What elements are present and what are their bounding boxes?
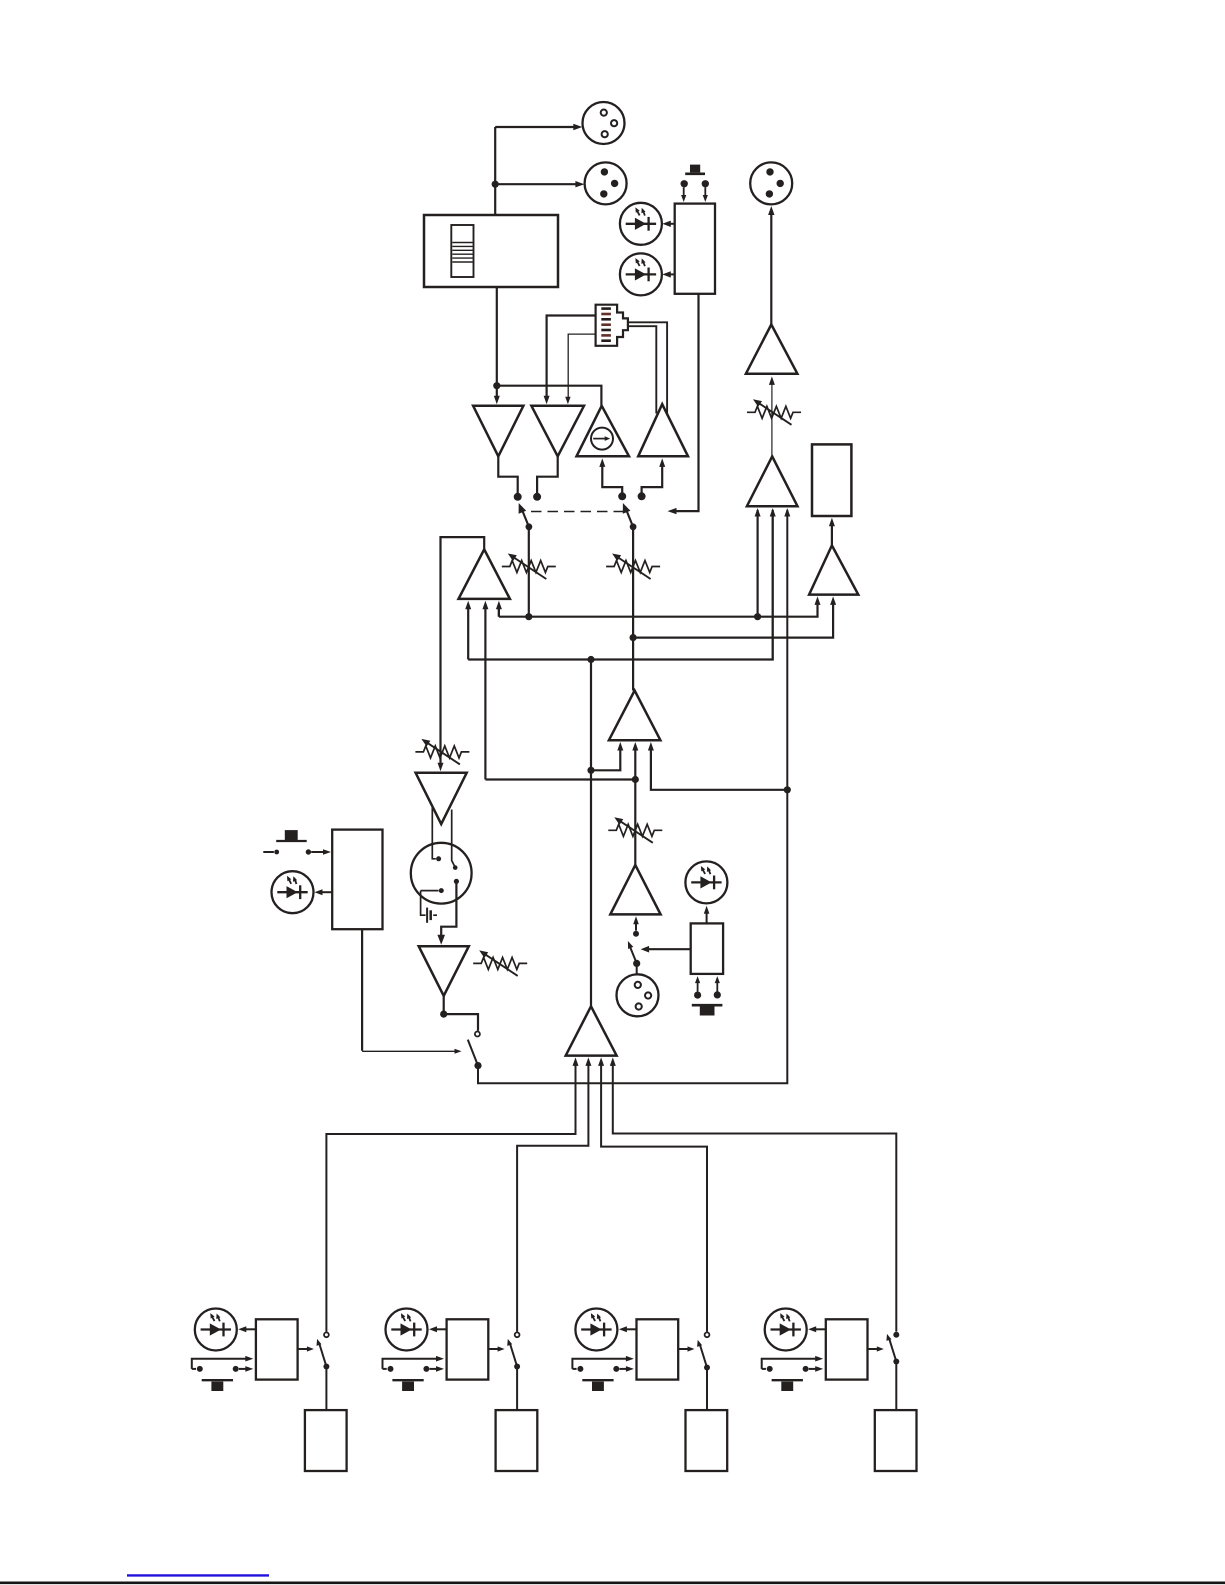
LED D1 power/limit indicator xyxy=(620,203,662,245)
pushbutton S4 rec xyxy=(285,830,298,840)
wire: control box to LED D1 xyxy=(670,223,675,225)
wire: mono bus to meter amp A3 apex xyxy=(497,386,602,406)
wire: control arrow channel 3 xyxy=(678,1348,688,1350)
node: bus1 to A6 xyxy=(754,613,761,620)
switch S5 pole xyxy=(633,960,640,967)
switch S22 pole xyxy=(514,1364,520,1370)
node A11 out xyxy=(440,1011,447,1018)
switch S32 pole xyxy=(704,1365,710,1371)
mix amp input2 arrow xyxy=(632,742,638,751)
switch S2a lever xyxy=(522,509,529,527)
jack ring contact xyxy=(452,810,455,867)
switch S32 lever xyxy=(700,1344,707,1368)
switch S12 lever xyxy=(319,1343,326,1367)
summing input arrows xyxy=(573,1057,579,1066)
limiter control box U1 xyxy=(675,204,715,294)
wire: limiter box to gang switch xyxy=(676,294,699,511)
node: echo return branch xyxy=(784,786,791,793)
XLR J4 talkback mic (female) xyxy=(617,974,659,1016)
channel 1 gain box xyxy=(256,1319,298,1379)
wire: A11 output to switch S3 xyxy=(443,996,445,1014)
switch S42 channel 4 contact xyxy=(893,1332,899,1338)
bus line 2 master to A7 xyxy=(633,601,833,638)
contacts S2b xyxy=(618,492,626,500)
RJ45 remote connector xyxy=(596,305,628,346)
wire: phantom box to S5 control xyxy=(648,948,691,950)
op-amp A11 echo send (down) xyxy=(419,946,469,996)
wire: box to LED D3 xyxy=(322,891,333,893)
wire: box to LED channel 1 xyxy=(245,1328,256,1330)
footer link line xyxy=(127,1574,269,1576)
op-amp A13 channel summing (up) xyxy=(566,1006,617,1055)
meter box M1 xyxy=(812,444,851,516)
pushbutton S11 channel 1 xyxy=(192,1359,247,1369)
XLR J2 main output (male) xyxy=(585,162,627,204)
wire: box to LED channel 3 xyxy=(626,1328,637,1330)
wire: control arrow channel 1 xyxy=(298,1348,308,1350)
node S2a pole xyxy=(526,523,533,530)
wire: sum to mix amp input1 xyxy=(591,746,620,770)
switch S5 lever xyxy=(630,946,637,964)
op-amp A12 talkback (up) xyxy=(610,865,660,914)
wire: switch to preamp channel 2 xyxy=(516,1367,518,1411)
switch S22 channel 2 contact xyxy=(515,1332,520,1337)
fader slider xyxy=(451,225,473,277)
jack tip contact xyxy=(432,808,436,859)
master fader box xyxy=(424,215,558,287)
TRS insert jack J5 xyxy=(411,843,472,904)
potentiometer VR4 talkback level xyxy=(608,824,662,836)
potentiometer VR5 echo level xyxy=(473,957,527,969)
channel 3 gain box xyxy=(637,1319,679,1379)
switch S12 pole xyxy=(323,1364,329,1370)
switch S3 lever xyxy=(468,1040,478,1066)
LED D40 channel 4 clip indicator xyxy=(765,1309,807,1351)
LED D2 indicator xyxy=(620,253,662,295)
switch S2b lever xyxy=(626,509,633,527)
wire: RJ45 to amp A2 input a xyxy=(547,316,596,399)
wire to line-out XLR xyxy=(495,126,574,128)
wire: A2 output to switch S2a xyxy=(537,456,558,493)
LED D4 phantom indicator xyxy=(685,861,727,903)
pushbutton S31 channel 3 xyxy=(572,1359,627,1369)
node S2b pole xyxy=(630,523,637,530)
wire: mid bus horizontal xyxy=(485,778,635,780)
potentiometer VR3 output level xyxy=(747,406,801,418)
wire: S3 to echo return bus xyxy=(478,790,787,1083)
bus line 3 sum to A6 input2 xyxy=(468,510,773,660)
XLR J3 aux/tape output (male) xyxy=(750,162,792,204)
switch S22 lever xyxy=(510,1343,517,1367)
wire: box to LED channel 2 xyxy=(436,1328,447,1330)
switch S3 pole xyxy=(474,1062,481,1069)
potentiometer VR6 echo send level xyxy=(415,746,469,758)
arrow A8 input mid xyxy=(484,605,486,780)
ground xyxy=(421,891,426,916)
RJ45 pins xyxy=(601,307,611,310)
op-amp A2 monitor R (down) xyxy=(531,406,584,457)
channel 4 feed wire xyxy=(613,1061,897,1332)
channel 2 feed wire xyxy=(517,1061,588,1332)
jack switch contact out xyxy=(454,879,459,884)
wire: control box to LED D2 xyxy=(670,273,675,275)
channel 1 input preamp box xyxy=(305,1410,347,1471)
channel 3 feed wire xyxy=(601,1061,707,1332)
arrow into A5 xyxy=(771,381,773,456)
channel 2 input preamp box xyxy=(496,1410,538,1471)
wire: control arrow channel 2 xyxy=(488,1348,498,1350)
jack sleeve contact xyxy=(421,890,439,892)
node: mono bus junction xyxy=(493,382,500,389)
pushbutton S41 channel 4 xyxy=(762,1359,817,1369)
contact dots S1 xyxy=(681,180,688,187)
op-amp A1 monitor L (down) xyxy=(473,406,523,457)
op-amp A7 meter amp (up) xyxy=(809,545,858,594)
arrow into A12 xyxy=(635,921,637,931)
potentiometer VR1 monitor level xyxy=(502,561,556,573)
S1 contact arrows into box xyxy=(683,188,685,197)
wire: S5 to talk mic XLR xyxy=(636,963,638,975)
switch S42 lever xyxy=(889,1338,896,1362)
REC box U2 xyxy=(332,830,382,930)
switch S3 contact xyxy=(475,1032,480,1037)
potentiometer VR2 master level xyxy=(606,561,660,573)
mix amp input3 arrow xyxy=(651,746,787,790)
op-amp A10 echo master (down) xyxy=(416,773,467,824)
op-amp A8 aux send (up) xyxy=(459,549,510,599)
node: VR2 branch xyxy=(630,634,637,641)
arrows into A6 xyxy=(755,508,761,517)
wire: A3 input jog xyxy=(602,462,622,493)
phantom pushbutton S6 contacts xyxy=(694,992,701,999)
channel 1 feed wire xyxy=(326,1061,575,1332)
wire: fader box to mono bus xyxy=(496,287,498,386)
op-amp A9 mix amp (up) xyxy=(609,691,661,741)
channel 2 gain box xyxy=(447,1319,489,1379)
wire: RJ45 to tape amp A4 (inner) xyxy=(628,326,656,413)
node S5 top xyxy=(633,931,639,937)
wire: output amp to XLR J3 xyxy=(770,214,772,325)
pushbutton S21 channel 2 xyxy=(383,1359,438,1369)
wire: switch to preamp channel 4 xyxy=(895,1362,897,1411)
wire: RJ45 to tape amp A4 (outer) xyxy=(628,322,667,413)
arrow into monitor amp A1 xyxy=(496,386,498,398)
op-amp A4 tape return (up) xyxy=(638,404,688,456)
switch S32 channel 3 contact xyxy=(705,1332,710,1337)
gang link dashed xyxy=(531,511,623,513)
op-amp A3 meter driver (up) xyxy=(577,406,630,457)
arrows into A7 xyxy=(815,596,821,605)
LED D3 rec indicator xyxy=(272,871,314,913)
echo return vertical to A6 input3 xyxy=(786,510,788,790)
phantom power box U3 xyxy=(691,923,723,974)
wire to main-out XLR xyxy=(495,183,576,185)
node: VR1 to bus1 xyxy=(525,613,532,620)
wire: A8 output to echo chain xyxy=(441,537,485,765)
LED D30 channel 3 clip indicator xyxy=(575,1309,617,1351)
channel 4 input preamp box xyxy=(875,1410,917,1471)
LED D10 channel 1 clip indicator xyxy=(195,1309,237,1351)
node: output split junction xyxy=(492,181,499,188)
wire: box to LED D4 xyxy=(706,911,708,924)
pushbutton S1 (limiter on) xyxy=(690,165,700,173)
wire: box to LED channel 4 xyxy=(815,1328,826,1330)
node: sum output on bus3 xyxy=(587,656,594,663)
wire: master bus vertical to XLR outputs xyxy=(494,127,496,215)
wire: control arrow channel 4 xyxy=(868,1348,878,1350)
wire: A4 input jog xyxy=(642,462,663,493)
wire: S2a through VR1 to monitor bus xyxy=(528,530,530,617)
footer rule xyxy=(0,1582,1225,1585)
node: mid bus to mix amp input2 xyxy=(632,776,639,783)
switch S42 pole xyxy=(893,1359,899,1365)
switch S12 channel 1 contact xyxy=(324,1332,329,1337)
wire: REC box to S3 control xyxy=(361,929,363,1050)
monitor bus line 1 xyxy=(499,601,818,617)
wire: switch to preamp channel 3 xyxy=(706,1368,708,1411)
wire: mix amp through VR2 to S2b xyxy=(632,530,634,691)
wire: A1 output to switch S2a xyxy=(498,456,517,493)
channel 3 input preamp box xyxy=(686,1410,728,1471)
node: branch to mix amp xyxy=(587,767,594,774)
contacts S2a xyxy=(514,493,522,501)
phantom pushbutton S6 cap xyxy=(692,1004,723,1007)
wire: bus1 up to A6 input1 xyxy=(756,510,758,617)
top output amp A5 (up) xyxy=(746,325,798,374)
meter symbol inside A3 xyxy=(591,428,613,450)
channel 4 gain box xyxy=(826,1319,868,1379)
op-amp A6 aux mix (up) xyxy=(747,456,798,506)
wire: switch to preamp channel 1 xyxy=(325,1367,327,1411)
wire: RJ45 to amp A2 input b xyxy=(568,334,595,398)
summing bus vertical xyxy=(590,660,592,1007)
LED D20 channel 2 clip indicator xyxy=(386,1309,428,1351)
wire: A7 to meter box xyxy=(831,522,833,545)
XLR J1 line output (female) xyxy=(583,102,625,144)
arrow A8 input right xyxy=(498,605,500,617)
